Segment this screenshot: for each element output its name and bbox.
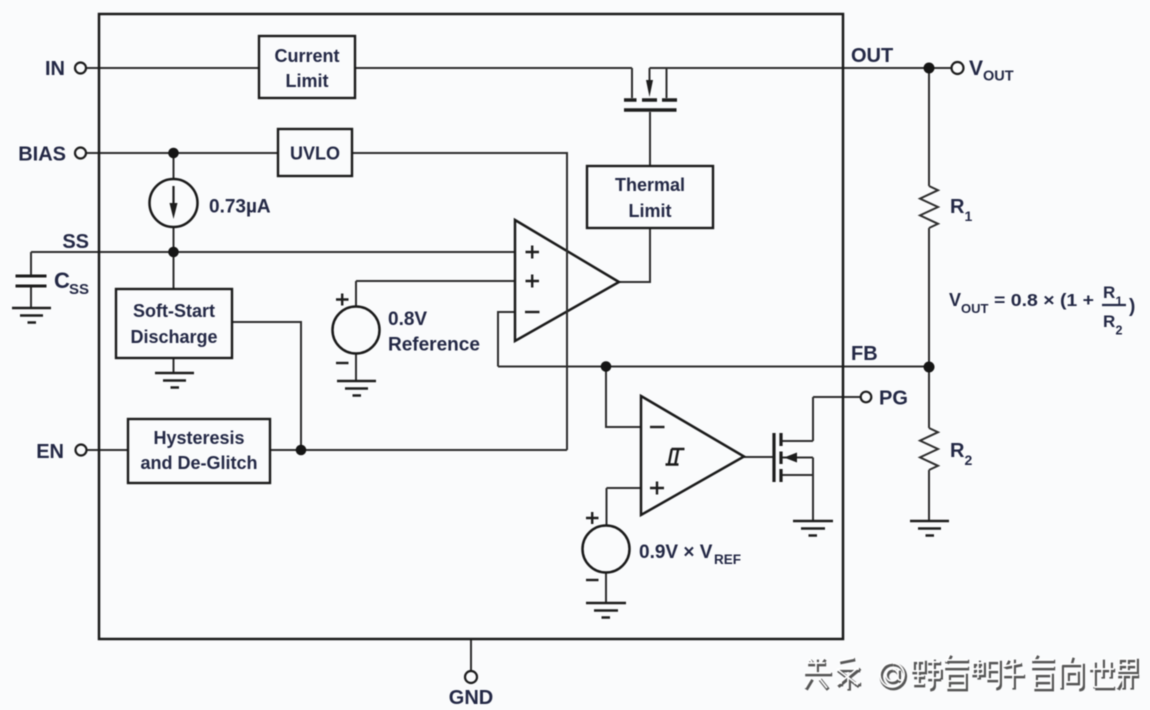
svg-text:GND: GND (449, 687, 493, 709)
svg-text:IN: IN (45, 58, 65, 80)
svg-text:FB: FB (851, 343, 878, 365)
svg-text:= 0.8 × (1 +: = 0.8 × (1 + (994, 290, 1094, 310)
svg-text:BIAS: BIAS (18, 144, 66, 166)
svg-text:V: V (969, 57, 983, 80)
svg-text:2: 2 (1116, 324, 1123, 338)
svg-text:EN: EN (36, 441, 64, 463)
svg-text:1: 1 (1116, 295, 1123, 309)
svg-text:1: 1 (965, 208, 973, 224)
svg-text:R: R (1103, 283, 1115, 302)
svg-text:0.73µA: 0.73µA (209, 197, 271, 218)
svg-text:Current: Current (274, 46, 339, 66)
svg-text:Reference: Reference (388, 335, 480, 356)
svg-text:Hysteresis: Hysteresis (153, 428, 244, 448)
svg-text:0.9V × V: 0.9V × V (639, 542, 713, 563)
svg-text:): ) (1129, 296, 1135, 317)
svg-text:Discharge: Discharge (130, 327, 217, 347)
svg-text:Limit: Limit (629, 201, 672, 221)
svg-text:2: 2 (965, 452, 973, 468)
svg-text:OUT: OUT (851, 45, 893, 67)
svg-text:SS: SS (62, 231, 89, 253)
svg-text:REF: REF (714, 552, 741, 567)
svg-text:C: C (54, 268, 70, 293)
svg-text:and De-Glitch: and De-Glitch (140, 453, 257, 473)
svg-text:R: R (1103, 312, 1115, 331)
svg-text:PG: PG (879, 388, 908, 410)
svg-text:Limit: Limit (286, 71, 329, 91)
svg-text:0.8V: 0.8V (388, 309, 427, 330)
svg-text:Soft-Start: Soft-Start (133, 301, 215, 321)
svg-text:Thermal: Thermal (615, 175, 685, 195)
svg-text:R: R (950, 196, 965, 218)
svg-text:V: V (949, 290, 961, 310)
svg-text:SS: SS (69, 281, 89, 298)
svg-text:UVLO: UVLO (290, 144, 340, 164)
svg-text:R: R (950, 440, 965, 462)
svg-text:OUT: OUT (983, 69, 1014, 85)
svg-text:OUT: OUT (961, 301, 989, 316)
